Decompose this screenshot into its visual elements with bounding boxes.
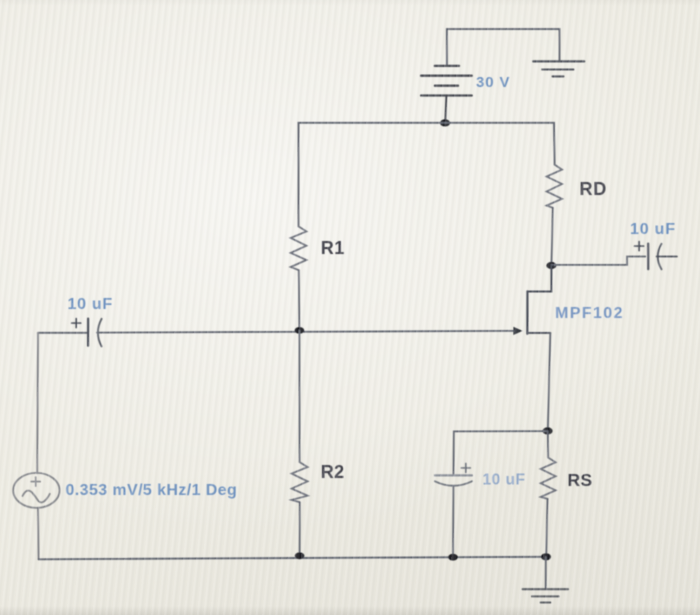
svg-text:10 uF: 10 uF [68,296,113,313]
svg-text:R2: R2 [321,462,345,482]
ac source V1 [13,473,59,508]
wire drain node to output capacitor [551,257,645,265]
resistor RD [547,165,562,208]
wire source node to RS [547,431,549,458]
wire ac source to bottom rail [37,508,40,559]
node source [543,427,553,434]
capacitor C1 10 uF input [72,319,102,347]
wire left rail down [36,333,39,473]
wire RS to bottom rail [546,499,547,557]
svg-text:R1: R1 [321,238,345,258]
svg-text:RD: RD [580,179,608,199]
node gate [295,327,305,334]
node RS bottom [541,553,551,560]
transistor Q1 MPF102 [513,266,551,335]
wire left rail to input capacitor [38,332,88,334]
wire R1 to gate node [298,270,301,330]
node R2 bottom [295,552,305,559]
wire battery negative to top ground [447,29,560,65]
wire gate net [97,331,513,333]
capacitor C2 10 uF output [635,242,677,270]
svg-text:30 V: 30 V [476,74,510,91]
svg-text:10 uF: 10 uF [630,221,676,238]
node drain [546,262,556,269]
node supply rail [440,119,450,126]
capacitor C3 10 uF bypass [435,463,472,557]
wire RS node to bottom ground [545,557,547,589]
ground (top right) [533,61,584,76]
wire source column [548,333,551,431]
wire gate node to R2 [298,331,300,463]
ground (bottom) [523,589,568,602]
svg-text:0.353 mV/5 kHz/1 Deg: 0.353 mV/5 kHz/1 Deg [66,482,238,499]
wire bottom rail [39,557,546,560]
svg-text:RS: RS [568,470,593,490]
wire source node to bypass capacitor [454,431,548,474]
resistor RS [541,458,556,499]
battery 30 V [421,66,472,123]
wire R2 to bottom rail [299,502,301,555]
resistor R1 [291,226,307,270]
svg-text:MPF102: MPF102 [555,305,624,322]
svg-text:10 uF: 10 uF [483,471,526,488]
wire RD to drain node [551,208,552,265]
wire supply rail [299,123,555,227]
node bypass bottom [448,554,458,561]
resistor R2 [292,462,308,502]
